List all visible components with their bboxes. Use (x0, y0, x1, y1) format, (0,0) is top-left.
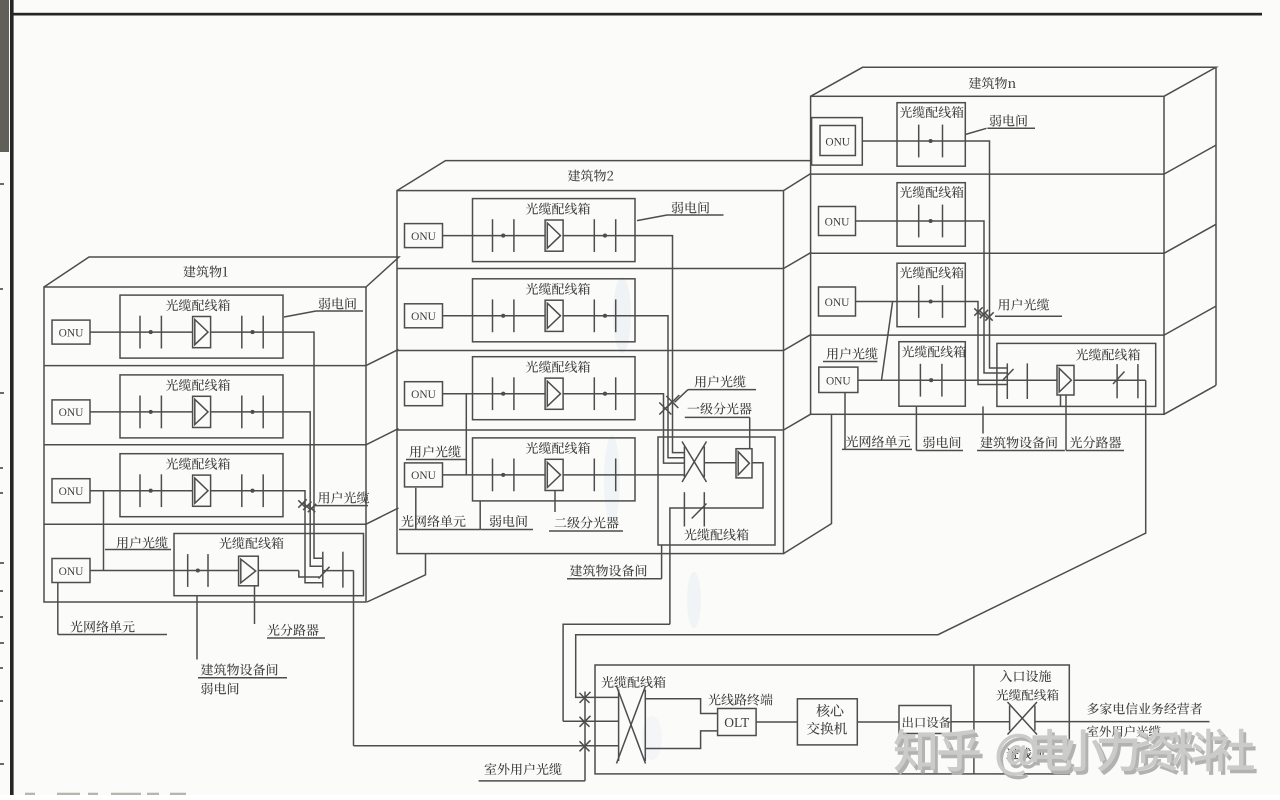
distribution box 光缆配线箱 building1 floor3 (120, 454, 283, 517)
svg-text:ONU: ONU (411, 470, 436, 482)
distribution box 光缆配线箱 building1 floor2 (120, 375, 283, 438)
wire through box building2 floor2 (473, 315, 636, 317)
optical network unit label 光网络单元 building2 (399, 488, 480, 530)
building 2 top face (397, 161, 811, 191)
ONU box building2 floor3 (405, 382, 443, 406)
splice terminals right building2 floor3 (594, 377, 615, 410)
distribution box 光缆配线箱 building2 floor1 (473, 199, 636, 262)
wire through box building2 floor1 (473, 235, 636, 237)
building n front face (811, 96, 1164, 414)
equipment room distribution box 光缆配线箱 building-n (997, 343, 1156, 406)
building equipment room label 建筑物设备间/弱电间 building1 (196, 596, 198, 660)
riser wire building2 floor2 (635, 316, 684, 458)
equipment room label 建筑物设备间 building-n (977, 406, 1065, 450)
second-level splitter label 二级分光器 building2 (549, 491, 623, 531)
distribution box label 光缆配线箱 central office (601, 676, 665, 688)
splice terminals left building1 floor3 (140, 474, 161, 507)
distribution box 光缆配线箱 building-n floor1 (897, 103, 965, 167)
wire building2 feed into central office (563, 720, 619, 722)
wire splitter to output terminals building-n (1074, 379, 1146, 381)
distribution box 光缆配线箱 building2 floor3 (473, 357, 636, 420)
splice terminals building1 ground floor (188, 554, 208, 587)
wire through box building-n floor3 (897, 301, 965, 303)
splice terminals right building1 floor3 (242, 474, 263, 507)
outdoor cable pointer with crossing marks (479, 692, 585, 781)
left margin tick marks (0, 183, 4, 765)
wire small box to equipment-room box building-n (965, 379, 1057, 381)
wire building-n floor1 ONU to box (862, 140, 897, 142)
riser wire building2 floor1 (635, 236, 684, 453)
building 2 floor lines (397, 269, 784, 431)
weak-current room label 弱电间 building-n bottom (916, 406, 963, 450)
riser wire building-n floor3 (965, 302, 1007, 385)
wire to splitter building-n equipment box (1027, 379, 1057, 381)
first-level splitter symbol building2 (736, 449, 752, 478)
connector wire building2 floor3 to ground floor (465, 394, 467, 475)
riser wire building1 floor2 (283, 412, 323, 566)
wire through box building-n floor2 (897, 220, 965, 222)
drop wire building1 to central office (353, 571, 355, 746)
building 1 title 建筑物1 (183, 266, 227, 278)
building 1 right face floor slants (366, 349, 399, 524)
output terminals building2 ground box (684, 492, 704, 526)
wire building1 ground floor (90, 570, 299, 572)
svg-text:ONU: ONU (59, 327, 84, 339)
wire core switch to exit equipment (857, 721, 899, 723)
exit equipment box 出口设备 (899, 706, 951, 734)
user cable label 用户光缆 building2 (675, 390, 757, 403)
building 2 right face bottom edge (784, 415, 832, 554)
svg-text:ONU: ONU (411, 231, 436, 243)
optical splitter symbol building1 floor2 (193, 396, 211, 427)
wire through box building2 floor3 (473, 393, 636, 395)
splice terminals building-n floor2 (919, 205, 943, 238)
splice terminals building-n ground floor (920, 364, 942, 397)
weak-current room label 弱电间 building2 bottom (480, 501, 533, 530)
building 2 title 建筑物2 (568, 170, 613, 182)
building 1 top face (44, 257, 399, 287)
wire splitter output loop building2 (670, 463, 763, 624)
wire through small box building-n ground floor (899, 379, 965, 381)
svg-text:ONU: ONU (825, 137, 850, 149)
connector wire building1 floor3 to ground floor (103, 491, 105, 571)
ONU box building1 floor3 (52, 479, 90, 503)
distribution box 光缆配线箱 building2 floor2 (473, 279, 636, 342)
optical splitter symbol building2 floor4 (545, 459, 563, 490)
distribution box 光缆配线箱 building2 floor4 (473, 438, 636, 501)
ground distribution box 光缆配线箱 building2 (658, 437, 775, 545)
fiber cross-connect bowtie central office (617, 686, 646, 764)
splice terminals right building2 floor4 (594, 459, 615, 492)
wire building-n ground floor ONU to box (858, 379, 899, 381)
output terminals building-n equipment box (1117, 364, 1138, 398)
wire through box building2 floor4 (473, 474, 636, 476)
cable crossing mark on feed 2 (580, 716, 591, 727)
building 1 right face bottom edge (367, 554, 426, 602)
entrance facility cross-connect (1008, 702, 1038, 735)
page left margin dark bar (scan edge) (0, 0, 9, 152)
wire building2 floor3 ONU to distribution box (443, 393, 473, 395)
cable entrance room label 进线间 (1006, 747, 1044, 759)
optical splitter label 光分路器 building1 (254, 586, 256, 624)
distribution box 光缆配线箱 building-n floor2 (897, 183, 965, 247)
svg-text:ONU: ONU (59, 566, 84, 578)
riser wire building1 floor3 (283, 491, 323, 583)
distribution box 光缆配线箱 building1 floor1 (120, 295, 283, 358)
building 1 front face (44, 287, 366, 602)
building n right face (1164, 67, 1216, 414)
distribution box 光缆配线箱 building-n floor3 (897, 263, 965, 327)
wire building-n floor3 ONU to box (856, 301, 898, 303)
outgoing terminals building1 ground floor (323, 552, 343, 588)
splice terminals right building1 floor2 (242, 396, 263, 429)
ONU box building2 floor2 (405, 304, 443, 328)
weak-current room label 弱电间 building-n (965, 128, 1035, 134)
building distribution box 光缆配线箱 building1 ground floor (174, 534, 364, 596)
wire building2 floor2 ONU to distribution box (443, 315, 473, 317)
building 2 right face floor slants (784, 252, 812, 430)
splice terminals left building2 floor3 (493, 377, 514, 410)
splice terminals right building1 floor1 (242, 316, 263, 349)
wire building1 feed into central office (354, 745, 619, 747)
bottom page edge dark dashes (25, 793, 186, 795)
cable crossing marks building2 riser bundle (659, 395, 679, 415)
page border vertical line (10, 0, 14, 795)
optical splitter label 光分路器 building-n (1066, 450, 1124, 452)
svg-text:ONU: ONU (825, 217, 850, 229)
OLT box (718, 709, 757, 736)
splice terminals building-n floor1 (919, 125, 943, 158)
zhihu watermark 知乎 @电小力资料社 (894, 729, 1256, 780)
wire OLT to core switch (756, 721, 797, 723)
wire building2 floor4 ONU to distribution box (443, 474, 473, 476)
ONU box building1 floor2 (52, 400, 90, 424)
cable bundle hatch marks building-n (974, 307, 993, 320)
ONU box building2 floor4 (405, 463, 443, 487)
cable bundle hatch marks building1 (298, 499, 316, 512)
riser wire building-n floor2 (965, 221, 1007, 373)
drop wire building2 to central office (563, 624, 670, 721)
riser wire building2 floor3 (635, 394, 684, 463)
splice terminals left building2 floor2 (493, 299, 514, 332)
svg-text:ONU: ONU (59, 486, 84, 498)
splice terminals left building1 floor1 (140, 316, 161, 349)
wire through box building1 floor2 (120, 411, 283, 413)
splice terminals right building2 floor1 (594, 219, 615, 252)
input terminals building-n equipment box (1007, 363, 1027, 399)
wires bowtie to OLT (645, 699, 717, 749)
building 1 floor lines (44, 366, 366, 525)
central office outer box (595, 665, 1069, 774)
telecom operators label 多家电信业务经营者 (1087, 703, 1202, 715)
optical network unit label 光网络单元 building-n (842, 393, 912, 450)
ONU box building1 floor1 (52, 320, 90, 344)
connector wire building-n floor3 to ground floor (882, 302, 893, 381)
svg-text:ONU: ONU (59, 407, 84, 419)
optical splitter symbol building1 floor1 (193, 317, 211, 348)
user cable label 用户光缆 building-n floor3 (998, 298, 1049, 310)
building 2 top right slant (784, 174, 811, 191)
user cable label 用户光缆 building1 floor3 (318, 491, 369, 503)
optical network unit label 光网络单元 building1 (57, 583, 59, 635)
breakout slash building1 ground floor (319, 567, 330, 579)
distribution box 光缆配线箱 building-n ground floor (899, 342, 965, 407)
core switch box 核心交换机 (797, 699, 857, 745)
user cable label 用户光缆 building-n ground floor (826, 347, 877, 359)
wire to telecom operators (1035, 721, 1210, 723)
wire building-n floor2 ONU to box (856, 220, 898, 222)
splitter pointer stubs building-n (1061, 395, 1067, 450)
splice terminals left building2 floor4 (493, 459, 514, 492)
breakout slash at output terminals building-n (1113, 372, 1125, 385)
weak-current room label 弱电间 building1 (284, 311, 363, 317)
wire building2 ground floor to right box (635, 474, 684, 476)
user cable label 用户光缆 building1 ground floor (116, 536, 167, 548)
building n floor lines (811, 174, 1164, 335)
entrance facility label 入口设施/光缆配线箱 (1000, 670, 1051, 682)
building n top face (811, 67, 1216, 96)
building n title 建筑物n (969, 77, 1016, 89)
optical splitter building1 ground floor (239, 556, 259, 586)
wire through box building1 floor3 (120, 490, 283, 492)
breakout slash building2 ground box (692, 504, 707, 519)
page border top line (10, 13, 1262, 16)
OLT terminal label 光线路终端 (708, 694, 772, 706)
ONU box building-n ground floor (819, 367, 858, 392)
user cable label 用户光缆 building2 ground floor (409, 445, 460, 457)
central office partition line (973, 665, 975, 774)
optical splitter symbol building2 floor1 (545, 220, 563, 251)
svg-text:ONU: ONU (411, 311, 436, 323)
building 2 front face (397, 191, 784, 554)
cable crossing mark on feed 3 (580, 740, 591, 751)
ONU box building-n floor3 (819, 287, 856, 316)
ONU box building1 ground floor (52, 559, 90, 583)
svg-text:ONU: ONU (826, 376, 851, 388)
wire through box building1 floor1 (120, 331, 283, 333)
wire bowtie to splitter building2 (704, 462, 736, 464)
riser wire building-n floor1 (965, 141, 1007, 368)
optical splitter symbol building2 floor3 (545, 378, 563, 409)
breakout slash at input terminals building-n (1002, 369, 1014, 381)
weak-current room label 弱电间 building2 (637, 215, 724, 221)
wire building1 floor2 ONU to distribution box (90, 411, 120, 413)
svg-text:OLT: OLT (724, 715, 750, 730)
equipment room label 建筑物设备间 building2 (567, 545, 662, 579)
wire building2 floor1 ONU to distribution box (443, 235, 473, 237)
splice terminals left building1 floor2 (140, 396, 161, 429)
wire through box building-n floor1 (897, 140, 965, 142)
optical splitter symbol building-n equipment box (1057, 365, 1074, 395)
ONU box building-n floor1 (812, 118, 863, 166)
splice terminals right building2 floor2 (594, 299, 615, 332)
ONU box building-n floor2 (819, 207, 856, 236)
ONU box building2 floor1 (405, 224, 443, 248)
optical splitter symbol building1 floor3 (193, 475, 211, 506)
first-level splitter label 一级分光器 building2 (688, 402, 752, 414)
wire building1 floor1 ONU to distribution box (90, 331, 120, 333)
wire exit equipment to entrance facility (951, 721, 1010, 723)
cable crossing mark on feed 1 (580, 692, 591, 703)
optical splitter symbol building2 floor2 (545, 300, 563, 331)
splice terminals left building2 floor1 (493, 219, 514, 252)
outdoor user cable label right side (1087, 725, 1161, 737)
splice terminals building-n floor3 (919, 285, 943, 318)
svg-text:ONU: ONU (825, 297, 850, 309)
svg-text:ONU: ONU (411, 389, 436, 401)
drop wire building-n to central office (576, 380, 1146, 697)
outdoor user cable label 室外用户光缆 (485, 763, 562, 775)
riser wire building1 floor1 (283, 332, 323, 558)
fiber cross-connect bowtie building2 (682, 442, 707, 483)
wire building1 floor3 ONU to distribution box (90, 490, 120, 492)
